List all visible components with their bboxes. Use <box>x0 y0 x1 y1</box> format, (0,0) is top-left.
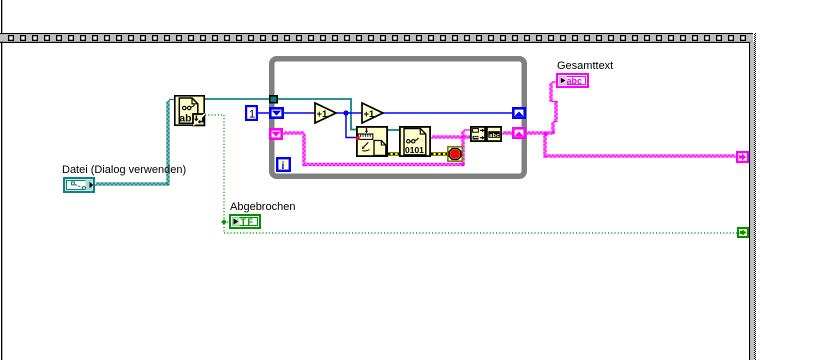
increment +1 node (first) <box>315 103 336 123</box>
read binary file icon (0101) <box>400 127 430 156</box>
coercion dot (red) <box>356 136 360 140</box>
set file position / EOF icon <box>357 127 387 156</box>
wire: magenta string wires inside loop <box>283 130 513 166</box>
while loop border <box>272 59 525 177</box>
wire: teal path wire from Datei control (crenellated) <box>95 100 174 186</box>
svg-text:+1: +1 <box>317 109 329 120</box>
stop sign node <box>448 147 462 161</box>
sequence structure right border <box>749 33 756 360</box>
tunnel: magenta output on sequence right border <box>737 152 748 162</box>
Gesamttext string indicator terminal <box>557 74 588 87</box>
junction: green wire branch diamond <box>221 219 227 225</box>
wire: magenta string wire to Gesamttext and right tunnel <box>526 82 736 157</box>
svg-text:+1: +1 <box>364 109 376 120</box>
sequence structure top border (film strip band) <box>0 33 753 43</box>
left shift register (blue, down arrow) <box>270 108 282 117</box>
svg-text:Abgebrochen: Abgebrochen <box>230 201 295 213</box>
svg-text:ab: ab <box>179 113 191 125</box>
concatenate strings icon <box>471 127 501 141</box>
wire: error cluster wire segments <box>388 152 447 156</box>
read characters from file icon <box>175 96 205 126</box>
svg-text:Gesamttext: Gesamttext <box>557 60 613 72</box>
right shift register (blue, up arrow) <box>513 108 524 117</box>
svg-text:TF: TF <box>241 217 255 227</box>
Abgebrochen boolean terminal <box>230 215 260 228</box>
junction: magenta wire branch diamond <box>543 131 549 137</box>
teal tunnel on loop left border <box>270 96 277 103</box>
iteration terminal i <box>277 158 290 172</box>
svg-text:Datei (Dialog verwenden): Datei (Dialog verwenden) <box>62 164 186 176</box>
wire: teal refnum wire icon to loop tunnel <box>205 98 269 100</box>
pane left edge line <box>1 0 2 360</box>
increment +1 node (second) <box>362 103 383 123</box>
svg-text:abc: abc <box>567 76 583 86</box>
wire: green boolean dotted wire <box>205 115 737 233</box>
Datei path control terminal <box>64 178 94 192</box>
svg-text:0101: 0101 <box>405 145 424 155</box>
svg-text:i: i <box>282 160 285 172</box>
numeric constant 1 <box>246 106 257 120</box>
svg-text:abc: abc <box>489 133 500 139</box>
wire: blue iteration wires inside loop <box>284 113 513 138</box>
right shift register (magenta, up arrow) <box>513 128 524 137</box>
left shift register (magenta, down arrow) <box>270 129 281 138</box>
tunnel: green output on sequence right border <box>738 228 748 237</box>
wire: blue from constant 1 to left shift register <box>258 112 270 114</box>
wire: teal refnum inside loop <box>278 99 399 130</box>
svg-text:1: 1 <box>249 109 255 121</box>
junction: blue wire dot <box>343 110 348 115</box>
